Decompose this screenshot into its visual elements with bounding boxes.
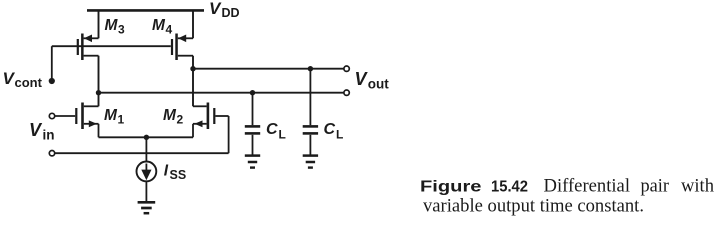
label VDD [209,0,240,20]
wire: upper output line [193,68,344,70]
terminal Vcont (filled dot) [49,78,55,84]
label Vcont [3,69,43,90]
wire: VDD rail to M3 source [98,10,100,38]
terminal Vin upper (open circle) [49,113,54,118]
capacitor CL2 [303,126,318,133]
node X junction (M3/M1 drains to lower output line) [96,90,101,95]
svg-text:3: 3 [118,22,125,36]
svg-text:variable output time constant.: variable output time constant. [423,197,644,217]
transistor M2 (NMOS, mirrored) [193,103,229,130]
svg-text:M: M [163,107,177,124]
node Y junction (M4/M2 drains to upper output line) [190,66,195,71]
svg-text:L: L [336,128,343,142]
wire: M1 source down [98,124,100,138]
node junction capacitor CL2 on upper output line [308,66,313,71]
wire: CL1 to ground [252,135,254,155]
wire: M2 gate riser [228,116,230,153]
wire: lower line to CL1 [252,93,254,126]
svg-text:M: M [105,17,119,34]
wire: M3 drain down to M1 drain [98,56,100,107]
transistor M1 (NMOS) [75,103,98,130]
svg-text:DD: DD [222,6,240,20]
wire: upper line to CL2 (crosses lower line) [309,69,311,126]
ground (below CL2) [303,156,318,168]
wire: ISS to ground [145,181,147,201]
wire: lower Vin line to M2 gate riser [55,152,229,154]
svg-text:C: C [266,121,278,138]
label CL1 [266,121,286,141]
wire: common source line [99,136,194,138]
svg-text:V: V [29,120,43,140]
svg-text:V: V [355,69,369,89]
label M2 [163,107,184,126]
svg-text:M: M [104,107,118,124]
svg-text:in: in [43,128,55,143]
svg-text:SS: SS [170,168,187,182]
wire: M2 source down [192,124,194,138]
svg-text:cont: cont [15,75,43,90]
current source ISS [137,162,157,182]
wire: tail node to ISS [145,137,147,161]
terminal Vout lower (open circle) [344,90,349,95]
wire: lower output line [99,92,345,94]
svg-text:M: M [152,17,166,34]
svg-text:Figure: Figure [420,178,482,195]
wire: CL2 to ground [309,135,311,155]
caption figure number and text [420,176,714,216]
svg-text:15.42: 15.42 [491,178,528,195]
terminal Vin lower (open circle) [49,151,54,156]
svg-text:C: C [324,121,336,138]
svg-text:pair: pair [641,176,670,196]
label CL2 [324,121,344,141]
svg-text:2: 2 [177,112,184,126]
wire: gate line Vcont to M3 and M4 gates [52,45,171,47]
svg-text:I: I [164,163,169,180]
terminal Vout upper (open circle) [344,66,349,71]
label M1 [104,107,125,126]
transistor M3 (PMOS) [77,34,99,61]
wire: upper Vin to M1 gate [55,115,75,117]
wire: VDD rail to M4 source [192,10,194,38]
label ISS [164,163,186,182]
svg-text:L: L [279,128,286,142]
svg-text:Differential: Differential [544,176,631,196]
wire: M4 drain down to M2 drain [192,56,194,107]
capacitor CL1 [245,126,260,133]
label M3 [105,17,126,36]
transistor M4 (PMOS) [171,34,193,61]
svg-text:1: 1 [118,112,125,126]
svg-text:4: 4 [166,22,173,36]
ground (below CL1) [245,156,260,168]
label M4 [152,17,173,36]
node tail junction (sources to ISS) [144,135,149,140]
label Vout [355,69,390,92]
label Vin [29,120,55,143]
svg-text:V: V [209,0,222,18]
svg-text:out: out [368,77,389,92]
svg-text:with: with [681,176,714,196]
node junction capacitor CL1 on lower output line [250,90,255,95]
VDD rail [87,9,204,12]
ground (below ISS) [138,202,156,213]
wire: Vcont riser [51,46,53,80]
